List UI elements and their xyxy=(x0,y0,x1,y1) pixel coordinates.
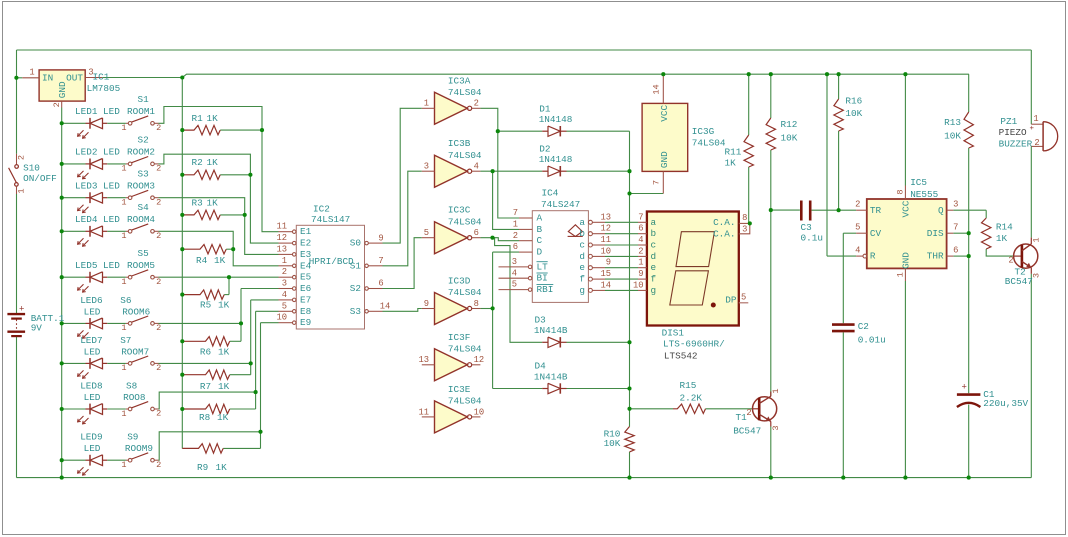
svg-text:1K: 1K xyxy=(725,158,737,169)
svg-text:RBI: RBI xyxy=(537,284,554,295)
svg-text:11: 11 xyxy=(276,222,287,232)
svg-text:1K: 1K xyxy=(214,255,226,266)
svg-text:12: 12 xyxy=(276,233,287,243)
svg-text:2: 2 xyxy=(513,231,518,241)
svg-text:74LS04: 74LS04 xyxy=(448,87,482,98)
svg-text:R16: R16 xyxy=(845,96,862,107)
svg-text:6: 6 xyxy=(638,224,643,234)
svg-text:1: 1 xyxy=(121,164,126,174)
svg-text:2: 2 xyxy=(1008,256,1013,266)
svg-text:1: 1 xyxy=(16,188,26,193)
svg-text:13: 13 xyxy=(600,212,611,222)
svg-text:BC547: BC547 xyxy=(733,425,761,436)
svg-text:6: 6 xyxy=(513,242,518,252)
svg-text:14: 14 xyxy=(600,280,611,290)
svg-text:IC3E: IC3E xyxy=(448,384,471,395)
svg-text:74LS147: 74LS147 xyxy=(311,214,350,225)
svg-text:10K: 10K xyxy=(781,133,798,144)
svg-text:2: 2 xyxy=(156,231,161,241)
svg-text:IC3A: IC3A xyxy=(448,75,471,86)
svg-text:E2: E2 xyxy=(300,238,311,249)
svg-text:3: 3 xyxy=(771,425,781,430)
svg-text:2: 2 xyxy=(474,99,479,109)
svg-text:10: 10 xyxy=(633,280,644,290)
svg-text:R1: R1 xyxy=(192,113,204,124)
svg-text:f: f xyxy=(651,274,657,285)
svg-text:R11: R11 xyxy=(725,147,742,158)
svg-text:10K: 10K xyxy=(944,131,961,142)
svg-text:LED3 LED: LED3 LED xyxy=(75,180,120,191)
svg-text:HPRI/BCD: HPRI/BCD xyxy=(309,256,354,267)
svg-text:C: C xyxy=(537,235,543,246)
svg-text:5: 5 xyxy=(855,222,860,232)
svg-text:2: 2 xyxy=(156,460,161,470)
svg-text:1K: 1K xyxy=(216,462,228,473)
svg-text:8: 8 xyxy=(896,189,906,194)
svg-text:3: 3 xyxy=(424,162,429,172)
svg-text:NE555: NE555 xyxy=(910,189,938,200)
svg-text:S2: S2 xyxy=(350,283,361,294)
svg-text:74LS04: 74LS04 xyxy=(448,216,482,227)
svg-text:GND: GND xyxy=(57,81,68,98)
svg-text:220u,35V: 220u,35V xyxy=(983,398,1028,409)
svg-text:5: 5 xyxy=(741,292,746,302)
svg-text:R13: R13 xyxy=(944,117,961,128)
svg-text:1: 1 xyxy=(424,99,429,109)
svg-text:Q: Q xyxy=(938,205,944,216)
svg-text:1K: 1K xyxy=(217,412,229,423)
svg-text:S5: S5 xyxy=(138,248,150,259)
svg-text:0.01u: 0.01u xyxy=(858,335,886,346)
svg-text:4: 4 xyxy=(855,245,860,255)
svg-text:S9: S9 xyxy=(127,432,138,443)
svg-text:IN: IN xyxy=(42,72,53,83)
svg-text:1: 1 xyxy=(121,198,126,208)
svg-text:2: 2 xyxy=(855,199,860,209)
svg-text:ON/OFF: ON/OFF xyxy=(23,173,57,184)
svg-text:ROOM2: ROOM2 xyxy=(127,147,155,158)
svg-text:12: 12 xyxy=(600,224,611,234)
svg-text:3: 3 xyxy=(282,279,287,289)
svg-text:R6: R6 xyxy=(200,346,211,357)
svg-text:74LS04: 74LS04 xyxy=(448,150,482,161)
svg-text:+: + xyxy=(962,382,967,392)
svg-text:IC3F: IC3F xyxy=(448,332,470,343)
svg-text:ROOM3: ROOM3 xyxy=(127,180,155,191)
svg-text:13: 13 xyxy=(276,244,287,254)
svg-text:E1: E1 xyxy=(300,226,312,237)
svg-text:E4: E4 xyxy=(300,260,312,271)
svg-text:PIEZO: PIEZO xyxy=(999,127,1027,138)
svg-text:S10: S10 xyxy=(23,163,40,174)
svg-text:g: g xyxy=(579,285,585,296)
svg-text:R5: R5 xyxy=(200,300,212,311)
svg-text:S1: S1 xyxy=(350,260,362,271)
svg-text:E3: E3 xyxy=(300,249,312,260)
svg-text:9: 9 xyxy=(638,269,643,279)
svg-text:D2: D2 xyxy=(539,143,550,154)
svg-text:LED: LED xyxy=(84,443,101,454)
svg-text:LED7: LED7 xyxy=(80,335,102,346)
svg-text:d: d xyxy=(579,251,585,262)
svg-text:IC3C: IC3C xyxy=(448,205,471,216)
svg-text:LT: LT xyxy=(537,261,549,272)
svg-text:1: 1 xyxy=(1033,114,1038,124)
svg-text:14: 14 xyxy=(380,302,391,312)
svg-text:LM7805: LM7805 xyxy=(87,83,121,94)
svg-text:14: 14 xyxy=(652,84,662,94)
svg-text:E7: E7 xyxy=(300,294,311,305)
svg-text:2: 2 xyxy=(746,408,751,418)
svg-text:LED8: LED8 xyxy=(80,381,102,392)
svg-text:74LS04: 74LS04 xyxy=(692,138,726,149)
svg-text:1K: 1K xyxy=(207,157,219,168)
svg-text:1: 1 xyxy=(29,68,34,78)
svg-text:ROO8: ROO8 xyxy=(123,392,145,403)
svg-text:GND: GND xyxy=(900,252,911,269)
svg-text:1K: 1K xyxy=(207,198,219,209)
svg-text:7: 7 xyxy=(638,212,643,222)
svg-text:S4: S4 xyxy=(138,202,150,213)
svg-text:10K: 10K xyxy=(604,438,621,449)
svg-text:2: 2 xyxy=(156,164,161,174)
svg-text:LED4 LED: LED4 LED xyxy=(75,214,120,225)
svg-text:S6: S6 xyxy=(120,295,131,306)
svg-text:10: 10 xyxy=(276,313,287,323)
svg-text:5: 5 xyxy=(424,228,429,238)
svg-text:1: 1 xyxy=(121,231,126,241)
svg-text:g: g xyxy=(651,285,657,296)
svg-text:R9: R9 xyxy=(197,462,208,473)
svg-text:1N414B: 1N414B xyxy=(534,371,568,382)
svg-text:1: 1 xyxy=(1031,237,1041,242)
svg-text:d: d xyxy=(651,251,657,262)
svg-text:CV: CV xyxy=(870,228,882,239)
svg-text:VCC: VCC xyxy=(659,104,670,121)
svg-text:IC4: IC4 xyxy=(542,187,559,198)
svg-text:0.1u: 0.1u xyxy=(801,233,823,244)
svg-text:DP: DP xyxy=(725,295,737,306)
svg-text:LED2 LED: LED2 LED xyxy=(75,147,120,158)
svg-text:74LS04: 74LS04 xyxy=(448,344,482,355)
svg-text:11: 11 xyxy=(600,235,611,245)
svg-text:S2: S2 xyxy=(138,135,149,146)
svg-text:c: c xyxy=(579,240,585,251)
svg-text:LED1 LED: LED1 LED xyxy=(75,106,120,117)
svg-text:OUT: OUT xyxy=(66,72,83,83)
svg-text:4: 4 xyxy=(282,290,287,300)
svg-text:9: 9 xyxy=(606,258,611,268)
svg-text:2: 2 xyxy=(638,246,643,256)
svg-text:1: 1 xyxy=(121,363,126,373)
svg-text:C.A.: C.A. xyxy=(713,228,735,239)
svg-text:C.A.: C.A. xyxy=(713,217,735,228)
svg-text:ROOM7: ROOM7 xyxy=(121,346,149,357)
svg-text:1K: 1K xyxy=(207,113,219,124)
svg-text:7: 7 xyxy=(513,208,518,218)
svg-text:f: f xyxy=(579,274,585,285)
svg-text:2: 2 xyxy=(1034,138,1039,148)
svg-text:1: 1 xyxy=(121,460,126,470)
svg-text:BC547: BC547 xyxy=(1005,276,1033,287)
svg-text:BUZZER: BUZZER xyxy=(999,139,1033,150)
svg-text:1: 1 xyxy=(638,258,643,268)
svg-text:a: a xyxy=(651,217,657,228)
svg-text:1N4148: 1N4148 xyxy=(539,154,573,165)
svg-text:LED5 LED: LED5 LED xyxy=(75,260,120,271)
svg-text:5: 5 xyxy=(282,301,287,311)
svg-text:PZ1: PZ1 xyxy=(1000,116,1017,127)
svg-text:b: b xyxy=(651,228,657,239)
svg-text:2.2K: 2.2K xyxy=(680,392,703,403)
svg-text:S1: S1 xyxy=(138,94,150,105)
svg-text:T1: T1 xyxy=(736,412,748,423)
svg-text:S0: S0 xyxy=(350,238,362,249)
svg-text:7: 7 xyxy=(652,180,662,185)
svg-text:ROOM1: ROOM1 xyxy=(127,106,155,117)
svg-text:DIS: DIS xyxy=(927,228,944,239)
svg-text:2: 2 xyxy=(156,197,161,207)
svg-text:9: 9 xyxy=(424,299,429,309)
svg-text:+: + xyxy=(1030,125,1035,133)
svg-text:6: 6 xyxy=(378,279,383,289)
svg-text:1K: 1K xyxy=(996,233,1008,244)
svg-text:LTS542: LTS542 xyxy=(664,350,698,361)
svg-text:LED: LED xyxy=(84,346,101,357)
svg-text:D1: D1 xyxy=(539,103,551,114)
svg-text:e: e xyxy=(579,262,585,273)
svg-text:7: 7 xyxy=(953,222,958,232)
svg-text:TR: TR xyxy=(870,205,882,216)
svg-text:S7: S7 xyxy=(120,335,131,346)
svg-text:1: 1 xyxy=(121,323,126,333)
svg-text:4: 4 xyxy=(638,235,643,245)
svg-text:IC3D: IC3D xyxy=(448,276,471,287)
svg-text:3: 3 xyxy=(88,67,93,77)
svg-text:2: 2 xyxy=(156,277,161,287)
svg-text:D: D xyxy=(537,247,543,258)
svg-text:13: 13 xyxy=(418,355,429,365)
svg-text:LED9: LED9 xyxy=(80,432,102,443)
svg-text:3: 3 xyxy=(512,257,517,267)
svg-text:A: A xyxy=(537,213,543,224)
svg-text:S3: S3 xyxy=(350,306,362,317)
svg-text:74LS247: 74LS247 xyxy=(541,199,580,210)
svg-text:a: a xyxy=(579,217,585,228)
svg-text:IC3B: IC3B xyxy=(448,138,471,149)
svg-text:e: e xyxy=(651,262,657,273)
svg-text:b: b xyxy=(579,228,585,239)
svg-text:R8: R8 xyxy=(199,412,210,423)
svg-text:+: + xyxy=(19,304,24,314)
svg-text:VCC: VCC xyxy=(900,200,911,217)
svg-text:7: 7 xyxy=(378,256,383,266)
svg-text:1: 1 xyxy=(282,256,287,266)
svg-text:R7: R7 xyxy=(200,381,211,392)
svg-text:R3: R3 xyxy=(192,198,204,209)
svg-text:R15: R15 xyxy=(680,380,697,391)
svg-text:15: 15 xyxy=(600,269,611,279)
svg-text:R4: R4 xyxy=(196,255,208,266)
svg-text:S3: S3 xyxy=(138,168,150,179)
svg-text:LED: LED xyxy=(84,392,101,403)
svg-text:2: 2 xyxy=(52,102,62,107)
svg-text:DIS1: DIS1 xyxy=(662,327,685,338)
svg-text:R: R xyxy=(870,251,876,262)
svg-text:3: 3 xyxy=(953,199,958,209)
svg-text:R2: R2 xyxy=(192,157,203,168)
svg-text:1: 1 xyxy=(121,123,126,133)
svg-text:LED: LED xyxy=(84,306,101,317)
svg-text:S8: S8 xyxy=(126,381,137,392)
svg-text:74LS04: 74LS04 xyxy=(448,396,482,407)
svg-text:1: 1 xyxy=(513,220,518,230)
svg-text:GND: GND xyxy=(659,151,670,168)
svg-text:1: 1 xyxy=(771,388,781,393)
svg-text:1: 1 xyxy=(121,277,126,287)
svg-text:E6: E6 xyxy=(300,283,311,294)
svg-text:9V: 9V xyxy=(31,322,43,333)
svg-text:2: 2 xyxy=(156,123,161,133)
svg-text:R12: R12 xyxy=(781,119,798,130)
svg-text:BI: BI xyxy=(537,273,548,284)
svg-text:2: 2 xyxy=(16,155,26,160)
svg-text:3: 3 xyxy=(742,224,747,234)
svg-text:c: c xyxy=(651,240,657,251)
svg-text:D3: D3 xyxy=(535,314,547,325)
svg-text:ROOM5: ROOM5 xyxy=(127,260,155,271)
svg-text:E8: E8 xyxy=(300,306,311,317)
svg-text:IC1: IC1 xyxy=(93,72,110,83)
svg-text:74LS04: 74LS04 xyxy=(448,287,482,298)
svg-text:C2: C2 xyxy=(858,321,869,332)
svg-text:6: 6 xyxy=(953,245,958,255)
svg-text:2: 2 xyxy=(156,363,161,373)
svg-text:4: 4 xyxy=(474,162,479,172)
svg-text:4: 4 xyxy=(512,268,517,278)
svg-text:LED6: LED6 xyxy=(80,295,102,306)
svg-text:1K: 1K xyxy=(218,381,230,392)
svg-text:ROOM4: ROOM4 xyxy=(127,214,155,225)
svg-text:E5: E5 xyxy=(300,272,312,283)
svg-text:10: 10 xyxy=(600,246,611,256)
svg-text:1K: 1K xyxy=(218,346,230,357)
svg-text:2: 2 xyxy=(282,267,287,277)
svg-text:12: 12 xyxy=(474,355,485,365)
svg-text:1N414B: 1N414B xyxy=(534,325,568,336)
svg-text:6: 6 xyxy=(474,228,479,238)
svg-text:1: 1 xyxy=(121,409,126,419)
svg-text:2: 2 xyxy=(156,323,161,333)
svg-text:10: 10 xyxy=(474,407,485,417)
svg-text:IC3G: IC3G xyxy=(692,126,715,137)
svg-text:2: 2 xyxy=(156,409,161,419)
svg-text:5: 5 xyxy=(512,280,517,290)
svg-text:D4: D4 xyxy=(535,361,547,372)
svg-text:1: 1 xyxy=(896,272,906,277)
svg-text:1N4148: 1N4148 xyxy=(539,114,573,125)
svg-text:ROOM6: ROOM6 xyxy=(122,306,150,317)
svg-text:1K: 1K xyxy=(218,300,230,311)
svg-text:11: 11 xyxy=(418,407,429,417)
svg-text:IC5: IC5 xyxy=(910,177,927,188)
svg-text:9: 9 xyxy=(378,233,383,243)
svg-text:8: 8 xyxy=(742,213,747,223)
svg-text:C3: C3 xyxy=(801,222,813,233)
svg-text:ROOM9: ROOM9 xyxy=(125,443,153,454)
svg-text:R14: R14 xyxy=(996,222,1013,233)
svg-text:B: B xyxy=(537,224,543,235)
svg-text:10K: 10K xyxy=(845,108,862,119)
svg-text:LTS-6960HR/: LTS-6960HR/ xyxy=(663,339,725,350)
svg-text:THR: THR xyxy=(927,251,944,262)
svg-text:E9: E9 xyxy=(300,317,311,328)
svg-text:8: 8 xyxy=(474,299,479,309)
